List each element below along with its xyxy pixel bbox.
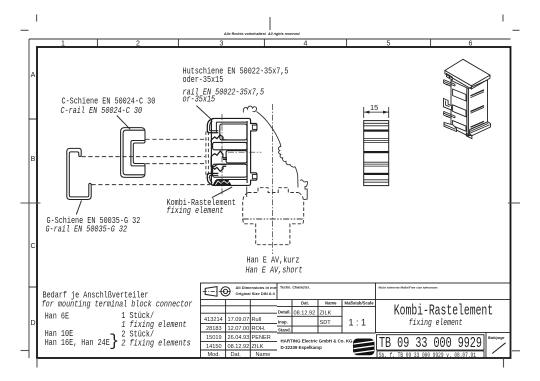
- svg-text:08.12.92: 08.12.92: [294, 310, 316, 316]
- svg-text:D: D: [30, 320, 35, 327]
- svg-text:PENER: PENER: [252, 335, 271, 341]
- svg-text:Techn. Character.: Techn. Character.: [280, 286, 310, 290]
- svg-text:5: 5: [387, 41, 391, 48]
- svg-text:Rull: Rull: [252, 317, 262, 323]
- svg-text:ROH.: ROH.: [252, 326, 266, 332]
- svg-text:12.07.00: 12.07.00: [228, 326, 250, 332]
- svg-text:Han 16E, Han 24E: Han 16E, Han 24E: [45, 338, 110, 348]
- svg-text:26.04.93: 26.04.93: [228, 335, 250, 341]
- svg-text:SDT: SDT: [320, 320, 332, 326]
- svg-text:1 : 1: 1 : 1: [349, 318, 367, 328]
- svg-text:Nicht tolerierte Maße/Free siz: Nicht tolerierte Maße/Free size toleranc…: [379, 286, 439, 290]
- svg-text:Alle Rechte vorbehalten/: Alle Rechte vorbehalten/: [224, 32, 266, 36]
- svg-text:14150: 14150: [206, 344, 222, 350]
- svg-text:1 fixing element: 1 fixing element: [121, 319, 186, 330]
- svg-text:6: 6: [469, 41, 473, 48]
- svg-text:Blatt/page: Blatt/page: [488, 336, 505, 340]
- svg-text:All rights reserved: All rights reserved: [267, 32, 300, 36]
- svg-text:B: B: [31, 156, 36, 163]
- svg-text:3: 3: [220, 41, 224, 48]
- svg-text:Han E AV,kurz: Han E AV,kurz: [247, 254, 300, 265]
- svg-text:Mod.: Mod.: [208, 352, 221, 358]
- svg-text:Detail.: Detail.: [278, 310, 291, 315]
- svg-text:G-rail EN 50035-G 32: G-rail EN 50035-G 32: [46, 223, 128, 234]
- svg-text:15: 15: [370, 103, 378, 112]
- svg-text:Han E AV,short: Han E AV,short: [246, 265, 303, 276]
- svg-text:Sb. f. TB 09 33 000 9929 v. 0: Sb. f. TB 09 33 000 9929 v. 08.07.91: [379, 351, 477, 359]
- svg-text:oder-35x15: oder-35x15: [183, 74, 224, 85]
- svg-text:fixing element: fixing element: [409, 317, 463, 329]
- svg-text:Dat.: Dat.: [301, 300, 309, 305]
- svg-text:Han 6E: Han 6E: [45, 312, 70, 322]
- svg-text:A: A: [31, 72, 36, 79]
- svg-text:fixing element: fixing element: [167, 205, 224, 216]
- svg-text:2: 2: [136, 41, 140, 48]
- svg-text:1: 1: [61, 41, 65, 48]
- svg-text:}: }: [109, 333, 119, 352]
- svg-text:08.12.92: 08.12.92: [228, 344, 250, 350]
- svg-text:Stand.: Stand.: [278, 327, 291, 332]
- svg-text:17.09.07: 17.09.07: [228, 317, 250, 323]
- svg-text:C-rail EN 50024-C 30: C-rail EN 50024-C 30: [61, 105, 143, 116]
- svg-text:Name: Name: [256, 352, 271, 358]
- svg-text:or-35x15: or-35x15: [183, 94, 216, 104]
- svg-text:C: C: [30, 243, 35, 250]
- svg-text:Original Size DIN A 4: Original Size DIN A 4: [236, 291, 276, 296]
- svg-text:TB 09 33 000 9929: TB 09 33 000 9929: [379, 334, 482, 352]
- svg-text:Insp.: Insp.: [278, 319, 288, 324]
- svg-text:Kombi-Rastelement: Kombi-Rastelement: [394, 303, 493, 319]
- svg-text:ZILK: ZILK: [252, 344, 264, 350]
- svg-text:Maßstab/Scale: Maßstab/Scale: [345, 300, 375, 305]
- svg-text:Name: Name: [325, 300, 337, 305]
- svg-text:4: 4: [304, 41, 308, 48]
- svg-text:All Dimensions in mm: All Dimensions in mm: [236, 285, 278, 290]
- svg-text:HARTING Electric GmbH & Co. KG: HARTING Electric GmbH & Co. KG: [281, 338, 354, 343]
- svg-text:D-32339 Espelkamp: D-32339 Espelkamp: [281, 345, 323, 350]
- svg-text:15019: 15019: [206, 335, 222, 341]
- svg-text:ZILK: ZILK: [320, 310, 332, 316]
- svg-text:28183: 28183: [206, 326, 222, 332]
- svg-text:413214: 413214: [204, 317, 223, 323]
- svg-text:2 fixing elements: 2 fixing elements: [121, 337, 190, 348]
- svg-text:for mounting terminal block co: for mounting terminal block connector: [42, 298, 193, 309]
- svg-text:Dat.: Dat.: [231, 352, 242, 358]
